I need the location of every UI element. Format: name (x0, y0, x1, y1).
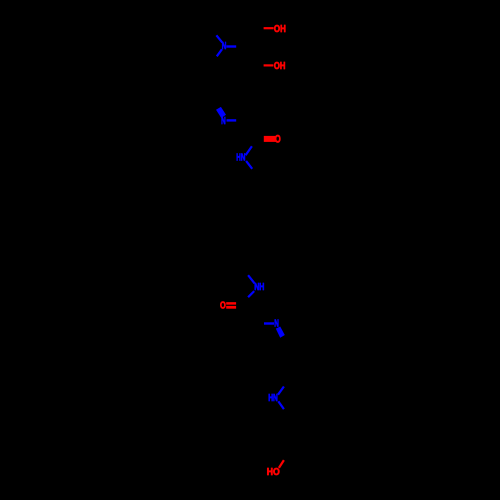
wedge bond from N3 (bold stereo wedge down-right, blue) (276, 327, 285, 338)
wire C to O of hydroxyl OH2 (red half-bond) (264, 64, 274, 66)
wire N1 to C8 (right, blue half-bond) (226, 45, 236, 47)
wire HN2 to C (up-right, blue half-bond) (278, 387, 284, 395)
svg-text:N: N (222, 41, 227, 52)
wire C to N3 (left, blue half-bond) (264, 322, 274, 324)
wire NH2 to chain C (up-left, blue half-bond) (248, 275, 255, 283)
svg-text:O: O (275, 134, 281, 146)
wire HO to ring C (up-right, red half-bond) (279, 460, 284, 468)
wire N1 to C2 (up-left, blue half-bond) (216, 35, 222, 42)
wire NH2 to carbonyl C (down-left, blue half-bond) (248, 291, 254, 297)
wire C to O of hydroxyl OH1 (red half-bond) (264, 27, 274, 29)
svg-text:O: O (220, 301, 226, 312)
wire N1 to C6 (down-left, blue half-bond) (217, 49, 222, 56)
wire HN1 to chain C (down-right, blue half-bond) (246, 161, 252, 169)
svg-text:HN: HN (236, 153, 245, 164)
svg-text:HN: HN (268, 393, 278, 404)
svg-text:N: N (221, 116, 226, 127)
svg-text:OH: OH (274, 24, 286, 35)
svg-text:HO: HO (267, 467, 280, 478)
wire HN1 to carbonyl C (up-right, blue half-bond) (246, 146, 252, 155)
wire HN2 to C (down-right, blue half-bond) (278, 401, 284, 409)
svg-text:NH: NH (254, 282, 264, 293)
wire C=O1 carbonyl double bond (red, merged block) (264, 136, 276, 142)
svg-text:OH: OH (274, 61, 286, 72)
wire N2 to C (right, blue half-bond) (227, 119, 237, 121)
wire O2=C double bond upper line (red) (226, 302, 236, 305)
wedge bond into N2 (bold stereo wedge, blue) (216, 107, 226, 118)
wire O2=C double bond lower line (red) (226, 306, 236, 309)
